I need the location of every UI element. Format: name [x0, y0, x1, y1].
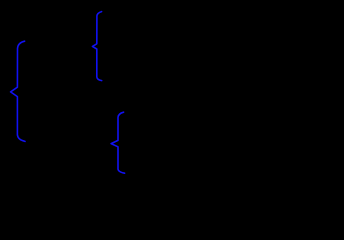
left brace 1 (large) [11, 41, 25, 141]
left brace 2 (upper middle) [92, 12, 101, 81]
left brace 3 (lower middle) [111, 112, 125, 173]
